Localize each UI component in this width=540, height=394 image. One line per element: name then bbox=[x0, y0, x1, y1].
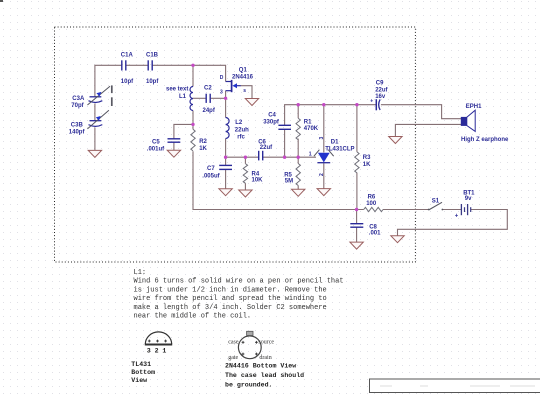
junction C7 node bbox=[224, 156, 227, 159]
svg-text:2N4416: 2N4416 bbox=[232, 74, 254, 80]
svg-text:C3A: C3A bbox=[72, 96, 85, 102]
svg-text:1K: 1K bbox=[363, 162, 371, 168]
note L1 winding text bbox=[134, 269, 344, 321]
wire C1A-C1B bbox=[126, 64, 149, 66]
svg-text:wire from the pencil and sprea: wire from the pencil and spread the wind… bbox=[134, 295, 327, 303]
wire C1B to drain corner bbox=[152, 65, 225, 81]
svg-text:1: 1 bbox=[162, 347, 166, 354]
resistor R5 bbox=[296, 164, 300, 186]
TL431 package bottom view bbox=[145, 332, 172, 354]
label R1 bbox=[304, 120, 319, 133]
svg-text:470K: 470K bbox=[304, 126, 319, 132]
wire C6 to D1 ref bbox=[263, 156, 316, 158]
label Q1 bbox=[232, 68, 254, 81]
svg-text:C5: C5 bbox=[152, 140, 160, 146]
svg-text:D1: D1 bbox=[331, 140, 339, 146]
label R4 bbox=[252, 172, 264, 184]
wire C3B-ground bbox=[94, 128, 96, 151]
wire R1 top stem bbox=[297, 105, 299, 119]
wire C8 to ground bbox=[356, 227, 358, 242]
ground D1 bbox=[317, 189, 330, 196]
capacitor C8 bbox=[350, 224, 363, 228]
svg-text:16v: 16v bbox=[375, 94, 386, 100]
svg-text:C9: C9 bbox=[376, 81, 384, 87]
capacitor C4 bbox=[278, 125, 291, 129]
svg-text:s: s bbox=[243, 88, 246, 94]
wire R4 stem bbox=[244, 157, 246, 163]
svg-text:C1A: C1A bbox=[121, 53, 134, 59]
label C1B bbox=[146, 53, 159, 86]
svg-text:make a length of 3/4 inch. So: make a length of 3/4 inch. Solder C2 som… bbox=[134, 304, 327, 312]
resistor R1 bbox=[296, 118, 300, 140]
wire C8 stem bbox=[356, 210, 358, 224]
label C8 bbox=[369, 225, 381, 237]
svg-text:+: + bbox=[370, 98, 373, 104]
capacitor C1B bbox=[148, 60, 152, 70]
wire top rail left bbox=[95, 65, 122, 97]
wire R3 bottom stem bbox=[356, 173, 358, 210]
capacitor C7 bbox=[219, 165, 232, 169]
svg-text:10pf: 10pf bbox=[146, 79, 159, 85]
2N4416 package bottom view bbox=[228, 331, 274, 361]
inductor L2 bbox=[226, 118, 230, 139]
wire mid rail to C6 bbox=[226, 156, 259, 158]
wire node A down to L1 bbox=[192, 65, 194, 86]
svg-text:be grounded.: be grounded. bbox=[225, 382, 272, 389]
svg-text:L1:: L1: bbox=[134, 269, 147, 277]
svg-text:S1: S1 bbox=[432, 199, 440, 205]
capacitor C5 bbox=[168, 139, 181, 142]
label C2 bbox=[203, 86, 216, 115]
label EPH1 bbox=[461, 104, 509, 143]
label C1A bbox=[121, 53, 134, 86]
svg-text:High Z earphone: High Z earphone bbox=[461, 137, 509, 143]
ground C8 bbox=[350, 242, 363, 249]
svg-text:3: 3 bbox=[220, 90, 223, 96]
svg-text:gate: gate bbox=[228, 355, 238, 361]
label 2N4416 bottom view bbox=[225, 362, 304, 388]
svg-text:2: 2 bbox=[155, 347, 159, 354]
label C9 bbox=[375, 81, 388, 101]
ground C7 bbox=[219, 189, 232, 196]
junction R3 top node bbox=[355, 103, 358, 106]
label C3B bbox=[69, 123, 86, 136]
wire R5 top stem bbox=[297, 157, 299, 163]
wire R4 to ground bbox=[244, 183, 246, 190]
wire R5 to ground bbox=[297, 186, 299, 190]
earphone EPH1 bbox=[461, 110, 475, 131]
svg-text:is just under 1/2 inch in diam: is just under 1/2 inch in diameter. Remo… bbox=[134, 286, 327, 294]
resistor R3 bbox=[355, 152, 359, 173]
wire C3A-C3B bbox=[94, 104, 96, 121]
svg-text:+: + bbox=[455, 214, 459, 220]
label L1 bbox=[166, 87, 188, 101]
wire R1 bottom stem bbox=[297, 139, 299, 158]
wire gate vertical bbox=[225, 91, 227, 99]
label C3A bbox=[71, 96, 85, 109]
label R5 bbox=[284, 173, 293, 185]
wire Q1 source bbox=[241, 86, 252, 99]
diode D1 TL431 bbox=[314, 150, 334, 163]
label D1 bbox=[325, 140, 354, 153]
svg-text:2: 2 bbox=[319, 173, 325, 176]
svg-text:330pf: 330pf bbox=[263, 119, 280, 125]
svg-text:Bottom: Bottom bbox=[131, 369, 155, 376]
svg-text:source: source bbox=[258, 339, 274, 345]
junction gate node bbox=[224, 97, 227, 100]
svg-text:drain: drain bbox=[259, 355, 271, 361]
capacitor C6 bbox=[259, 151, 263, 161]
wire lower rail R6 to S1 bbox=[383, 209, 428, 211]
svg-text:rfc: rfc bbox=[237, 135, 245, 141]
svg-text:.001: .001 bbox=[369, 231, 381, 237]
svg-text:1: 1 bbox=[309, 152, 312, 158]
ground earphone bbox=[389, 137, 402, 144]
junction node A bbox=[191, 64, 194, 67]
wire C4 bottom bbox=[284, 130, 286, 158]
svg-text:2N4416 Bottom View: 2N4416 Bottom View bbox=[225, 362, 296, 369]
wire L2 bottom to mid node bbox=[225, 139, 227, 158]
svg-text:10K: 10K bbox=[252, 178, 264, 184]
label C7 bbox=[202, 166, 220, 179]
svg-text:case: case bbox=[228, 340, 239, 346]
wire L1 bottom to R2 node bbox=[192, 111, 194, 130]
svg-text:22uf: 22uf bbox=[375, 88, 388, 94]
junction C4 bottom node bbox=[283, 156, 286, 159]
capacitor C9 bbox=[370, 98, 380, 110]
svg-text:Wind 6 turns of solid wire on: Wind 6 turns of solid wire on a pen or p… bbox=[134, 278, 344, 286]
svg-text:R2: R2 bbox=[199, 139, 207, 145]
svg-text:C3B: C3B bbox=[71, 123, 84, 129]
junction R4 node bbox=[244, 156, 247, 159]
junction R3 bottom node bbox=[355, 208, 358, 211]
svg-text:TL431: TL431 bbox=[131, 361, 151, 368]
label C4 bbox=[263, 113, 280, 126]
label C6 bbox=[258, 140, 273, 151]
wire D1 cathode bbox=[323, 105, 325, 153]
svg-text:D: D bbox=[220, 75, 224, 81]
resistor R6 bbox=[364, 207, 383, 211]
svg-text:9v: 9v bbox=[465, 196, 472, 202]
svg-text:R6: R6 bbox=[368, 195, 376, 201]
wire earphone return bbox=[395, 124, 461, 136]
wire C5 to ground bbox=[173, 142, 175, 150]
svg-text:View: View bbox=[131, 377, 147, 384]
svg-text:3: 3 bbox=[147, 347, 151, 354]
inductor L1 bbox=[190, 87, 193, 111]
svg-text:3: 3 bbox=[319, 137, 325, 140]
label L2 bbox=[235, 120, 249, 141]
wire S1 to BT1 bbox=[443, 209, 462, 211]
transistor Q1 bbox=[226, 80, 241, 92]
junction L1 bottom node bbox=[191, 123, 194, 126]
capacitor C2 bbox=[206, 94, 210, 103]
svg-text:C4: C4 bbox=[268, 113, 276, 119]
ground C3 column bbox=[88, 150, 101, 157]
wire C7 stem bbox=[225, 157, 227, 165]
switch S1 bbox=[428, 202, 444, 210]
variable capacitor C3B bbox=[87, 110, 109, 129]
svg-text:C8: C8 bbox=[369, 225, 377, 231]
svg-text:C7: C7 bbox=[207, 166, 215, 172]
ground battery return bbox=[391, 236, 404, 243]
corner mark bbox=[0, 0, 3, 2]
svg-text:R1: R1 bbox=[304, 120, 312, 126]
ground C5 bbox=[167, 150, 180, 157]
svg-text:L1: L1 bbox=[179, 94, 187, 100]
svg-text:C2: C2 bbox=[204, 86, 212, 92]
junction R1 top node bbox=[297, 103, 300, 106]
svg-text:24pf: 24pf bbox=[203, 108, 216, 114]
wire node B to C5 bbox=[174, 124, 193, 138]
wire C9 right to earphone bbox=[381, 105, 461, 119]
label R2 bbox=[199, 139, 207, 152]
ground R4 bbox=[239, 190, 252, 197]
title block bbox=[370, 379, 540, 393]
capacitor C1A bbox=[122, 60, 126, 70]
wire C7 to ground bbox=[225, 170, 227, 189]
svg-text:EPH1: EPH1 bbox=[466, 104, 482, 110]
svg-text:.005uf: .005uf bbox=[202, 173, 220, 179]
wire R3 top stem bbox=[356, 105, 358, 152]
svg-text:Q1: Q1 bbox=[239, 68, 248, 74]
label BT1 bbox=[455, 191, 475, 220]
wire C2 to gate node bbox=[211, 97, 226, 99]
junction D1 top node bbox=[322, 103, 325, 106]
svg-text:TL431CLP: TL431CLP bbox=[325, 147, 354, 153]
svg-text:10pf: 10pf bbox=[121, 79, 134, 85]
svg-text:1K: 1K bbox=[199, 146, 207, 152]
wire BT1 return loop bbox=[398, 210, 508, 236]
svg-text:5M: 5M bbox=[285, 179, 293, 185]
battery BT1 bbox=[461, 204, 470, 215]
svg-text:70pf: 70pf bbox=[71, 103, 84, 109]
svg-text:L2: L2 bbox=[235, 120, 243, 126]
variable capacitor C3A bbox=[87, 86, 110, 105]
wire gate node to L2 bbox=[225, 98, 227, 117]
wire R2 bottom to lower rail bbox=[193, 151, 364, 209]
wire D1 anode to ground bbox=[323, 163, 325, 188]
svg-text:near the middle of the coil.: near the middle of the coil. bbox=[134, 313, 252, 321]
wire C4 top bbox=[285, 105, 377, 126]
svg-text:140pf: 140pf bbox=[69, 130, 86, 136]
gang dashed link bbox=[111, 85, 113, 106]
svg-text:22uh: 22uh bbox=[235, 127, 249, 133]
ground R5 bbox=[292, 189, 305, 196]
svg-text:see text: see text bbox=[166, 87, 188, 93]
resistor R2 bbox=[191, 129, 195, 151]
svg-text:C1B: C1B bbox=[146, 53, 159, 59]
dashed boundary box bbox=[55, 27, 416, 262]
svg-text:R3: R3 bbox=[363, 155, 371, 161]
label R6 bbox=[366, 195, 377, 208]
ground Q1 source bbox=[245, 99, 258, 106]
junction R5 node bbox=[297, 156, 300, 159]
label TL431 bottom view bbox=[131, 361, 155, 384]
resistor R4 bbox=[243, 164, 247, 184]
label C5 bbox=[147, 140, 165, 153]
svg-text:The case lead should: The case lead should bbox=[225, 372, 304, 379]
svg-text:100: 100 bbox=[366, 201, 377, 207]
svg-text:22uf: 22uf bbox=[260, 145, 273, 151]
label R3 bbox=[363, 155, 371, 168]
wire L1 tap to C2 bbox=[193, 97, 206, 99]
svg-text:.001uf: .001uf bbox=[147, 146, 165, 152]
